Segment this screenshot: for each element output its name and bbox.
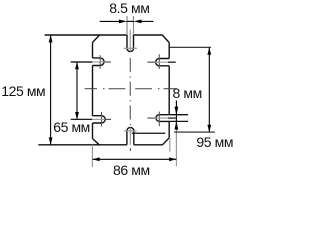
bottom slot outline xyxy=(127,127,134,144)
vertical centerline (dash-dot) xyxy=(129,30,131,145)
top-right chamfer xyxy=(162,35,169,43)
lower-right slot extension lines for 8mm xyxy=(169,115,188,122)
dimension 125mm left xyxy=(50,35,52,144)
lower-left slot tick xyxy=(101,112,103,127)
label 86 мм xyxy=(113,163,150,177)
lower-left slot centerline xyxy=(71,118,93,120)
left edge xyxy=(92,42,94,138)
upper-left slot outline xyxy=(93,58,105,66)
wire top edge right segment xyxy=(134,34,163,36)
internal step edge bottom-right xyxy=(132,132,166,134)
gray extension: right edge down xyxy=(169,138,171,152)
dimension 65mm left inner xyxy=(76,62,78,119)
horizontal centerline (dash-dot) xyxy=(85,88,177,90)
dimension 8.5mm top xyxy=(100,20,154,22)
bottom edge (with 125mm bottom extension at left) xyxy=(38,144,162,146)
label 95 мм xyxy=(196,135,233,149)
upper-right slot outline xyxy=(156,59,170,66)
bottom-right chamfer xyxy=(163,138,170,145)
top slot outline xyxy=(127,35,134,52)
lower-right slot outline xyxy=(156,115,169,122)
wire top edge left segment xyxy=(45,34,127,36)
lower-left slot outline xyxy=(93,116,106,123)
right edge xyxy=(168,43,170,138)
lower-right slot tick xyxy=(158,112,160,127)
lower-right slot centerline xyxy=(148,117,156,119)
bottom-left chamfer xyxy=(93,139,100,145)
label 65 мм xyxy=(53,120,90,134)
label 8.5 мм xyxy=(109,1,149,15)
upper-left slot tick xyxy=(99,55,101,68)
bottom slot center tick xyxy=(124,130,137,132)
upper-right slot tick xyxy=(158,54,160,69)
label 125 мм xyxy=(1,84,45,98)
top slot center tick xyxy=(124,47,137,49)
dimension 95mm right: bottom extension line xyxy=(174,131,215,133)
dimension 86mm bottom xyxy=(93,158,177,160)
gray extension: 86mm right / 8mm dim lower part xyxy=(175,130,177,166)
upper-right slot centerline xyxy=(148,61,156,63)
top slot extension lines up (thin) xyxy=(127,16,134,35)
gray extension: left edge down (86mm) xyxy=(91,145,93,167)
top-left chamfer xyxy=(93,35,100,42)
dimension 95mm right: top extension line xyxy=(170,46,211,48)
dimension 8mm right xyxy=(175,101,177,131)
part outline: top edge (with 125mm top extension at left) xyxy=(38,35,169,145)
label 8 мм xyxy=(173,86,202,100)
upper-left slot centerline xyxy=(71,61,93,63)
dimension 95mm right: dim line with arrows xyxy=(208,48,210,132)
